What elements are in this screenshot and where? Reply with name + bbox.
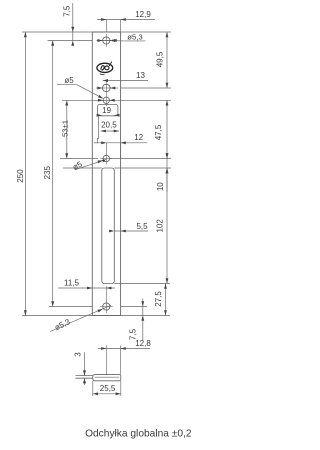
svg-text:12: 12 [134, 133, 143, 142]
svg-text:11,5: 11,5 [64, 279, 80, 288]
svg-text:7,5: 7,5 [62, 5, 71, 17]
svg-text:102: 102 [156, 219, 165, 233]
svg-text:ø5: ø5 [64, 76, 74, 85]
svg-text:12,8: 12,8 [135, 339, 151, 348]
svg-text:19: 19 [102, 106, 111, 115]
svg-text:10: 10 [156, 182, 165, 191]
svg-text:ø5: ø5 [71, 159, 84, 172]
svg-text:49,5: 49,5 [155, 51, 164, 67]
svg-text:3: 3 [74, 352, 83, 357]
svg-text:20,5: 20,5 [101, 120, 117, 129]
svg-text:ø5,3: ø5,3 [53, 317, 72, 332]
svg-text:5,5: 5,5 [136, 222, 148, 231]
svg-text:27,5: 27,5 [154, 291, 163, 307]
svg-text:25,5: 25,5 [100, 384, 116, 393]
svg-text:Odchyłka globalna ±0,2: Odchyłka globalna ±0,2 [85, 429, 192, 440]
svg-text:235: 235 [43, 165, 52, 179]
svg-text:13: 13 [136, 71, 145, 80]
svg-text:12,9: 12,9 [135, 10, 151, 19]
svg-text:53±1: 53±1 [61, 120, 70, 137]
svg-text:47,5: 47,5 [154, 124, 163, 140]
svg-text:ø5,3: ø5,3 [127, 33, 142, 42]
svg-text:250: 250 [16, 169, 25, 183]
